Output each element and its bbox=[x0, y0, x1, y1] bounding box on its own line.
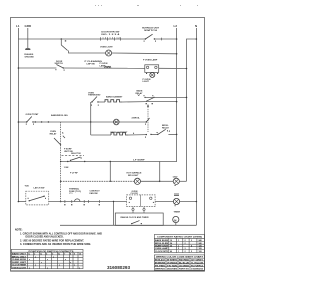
svg-text:GY GREY: GY GREY bbox=[191, 260, 204, 262]
svg-text:FAN SW: FAN SW bbox=[90, 192, 98, 195]
svg-text:x: x bbox=[70, 262, 72, 264]
svg-text:x: x bbox=[29, 254, 31, 256]
svg-text:RELAY: RELAY bbox=[136, 92, 143, 95]
lamp clock B bbox=[174, 194, 179, 196]
svg-text:240: 240 bbox=[199, 239, 202, 242]
svg-text:CLEAN MODE: CLEAN MODE bbox=[12, 258, 27, 261]
pin labels 1 2 bake relay bbox=[146, 103, 147, 104]
svg-text:PK PINK: PK PINK bbox=[155, 265, 166, 267]
svg-text:x: x bbox=[29, 267, 31, 269]
svg-text:2: 2 bbox=[34, 254, 35, 256]
oven light switch branch bbox=[61, 38, 63, 40]
svg-text:2: 2 bbox=[112, 38, 113, 40]
svg-text:9: 9 bbox=[74, 254, 75, 256]
svg-text:120: 120 bbox=[199, 251, 202, 253]
svg-text:P LF RF: P LF RF bbox=[70, 173, 79, 175]
svg-text:LF SURF: LF SURF bbox=[133, 159, 145, 161]
svg-text:L1: L1 bbox=[16, 24, 20, 28]
left circuit analysis table bbox=[11, 249, 83, 268]
wire GRD stub bbox=[27, 28, 29, 49]
svg-text:WIRING: WIRING bbox=[155, 269, 166, 271]
svg-text:316080293: 316080293 bbox=[191, 269, 203, 271]
lamp pilot circle on tstat line bbox=[114, 119, 120, 125]
terminal ticks on clock line bbox=[65, 200, 99, 203]
wire lamp A to N branch bbox=[179, 180, 186, 182]
svg-text:OVEN LIGHT: OVEN LIGHT bbox=[100, 47, 113, 49]
border frame bbox=[11, 18, 205, 272]
svg-text:SURF UNIT: SURF UNIT bbox=[12, 262, 27, 264]
svg-text:GROUND: GROUND bbox=[25, 56, 35, 58]
svg-text:BAKE ELEM: BAKE ELEM bbox=[155, 239, 168, 242]
svg-text:GRD: GRD bbox=[25, 24, 33, 28]
svg-text:OVEN TSTAT: OVEN TSTAT bbox=[26, 113, 40, 116]
svg-text:LMP SW: LMP SW bbox=[87, 63, 95, 65]
wire bake relay output to N branch bbox=[145, 96, 186, 98]
wire clock box to lamp B bbox=[155, 201, 174, 203]
svg-text:x: x bbox=[41, 254, 43, 256]
ground bbox=[25, 47, 30, 50]
svg-text:RELAY: RELAY bbox=[162, 126, 169, 129]
svg-text:120: 120 bbox=[199, 245, 202, 247]
svg-text:RELAY: RELAY bbox=[50, 133, 57, 136]
svg-text:PART NO: PART NO bbox=[179, 268, 190, 271]
svg-text:5: 5 bbox=[191, 251, 192, 253]
svg-text:2: 2 bbox=[105, 38, 106, 40]
svg-text:IND LIGHT: IND LIGHT bbox=[128, 175, 139, 177]
svg-text:RD RED: RD RED bbox=[179, 260, 190, 262]
wire clock lamp to N rail bbox=[179, 201, 196, 203]
svg-text:5: 5 bbox=[52, 254, 53, 256]
svg-text:2: 2 bbox=[178, 248, 179, 250]
svg-text:x: x bbox=[53, 256, 55, 258]
wire top line L1 to L2 bbox=[18, 38, 145, 40]
svg-text:DIAGRAM: DIAGRAM bbox=[167, 268, 177, 271]
svg-text:x: x bbox=[47, 259, 49, 261]
lamp B1 oven light bbox=[106, 50, 112, 56]
svg-text:x: x bbox=[74, 265, 76, 267]
svg-text:60: 60 bbox=[170, 251, 172, 253]
svg-text:P OVEN LAMP: P OVEN LAMP bbox=[143, 59, 158, 62]
svg-text:3: 3 bbox=[191, 240, 192, 242]
svg-text:A: A bbox=[62, 131, 64, 134]
svg-text:1: 1 bbox=[103, 38, 104, 40]
svg-text:316080293: 316080293 bbox=[107, 265, 130, 270]
svg-text:x: x bbox=[35, 256, 37, 258]
svg-text:BAKE ONLY: BAKE ONLY bbox=[12, 253, 27, 256]
svg-text:1: 1 bbox=[178, 251, 179, 253]
wire N rail bbox=[195, 28, 197, 225]
wire clock line y201.5 bbox=[49, 201, 127, 203]
svg-text:BR BROWN: BR BROWN bbox=[155, 263, 166, 265]
svg-text:4 BROIL: 4 BROIL bbox=[132, 116, 141, 119]
svg-text:NOTE:: NOTE: bbox=[15, 229, 23, 232]
svg-text:1 BK: 1 BK bbox=[64, 167, 69, 169]
svg-text:WIRING COLOR CODE IDENT CHART: WIRING COLOR CODE IDENT CHART bbox=[156, 256, 204, 259]
svg-text:x: x bbox=[59, 254, 61, 256]
svg-text:OVEN LIGHT: OVEN LIGHT bbox=[12, 267, 27, 269]
range clock box bbox=[115, 213, 163, 225]
svg-text:P 1: P 1 bbox=[70, 193, 74, 195]
wire lamp line to jog junction bbox=[140, 180, 160, 182]
svg-text:1: 1 bbox=[178, 245, 179, 247]
svg-text:GN GREEN: GN GREEN bbox=[179, 265, 190, 267]
svg-text:19: 19 bbox=[170, 240, 172, 242]
svg-text:NO. 1 2 3 4: NO. 1 2 3 4 bbox=[101, 33, 120, 36]
wire drop to bottom bbox=[113, 202, 115, 226]
node junction top N bbox=[196, 38, 198, 40]
latch dashed box bbox=[26, 191, 49, 205]
svg-text:TOD: TOD bbox=[25, 186, 30, 188]
wire bottom line bbox=[60, 224, 196, 226]
svg-text:35: 35 bbox=[170, 245, 172, 247]
svg-text:x: x bbox=[79, 267, 81, 269]
svg-text:x: x bbox=[59, 265, 61, 267]
svg-text:M: M bbox=[174, 218, 176, 222]
svg-text:BAKE/BROIL SEL: BAKE/BROIL SEL bbox=[51, 114, 69, 117]
svg-text:CLOCK/TIMER: CLOCK/TIMER bbox=[12, 265, 27, 267]
svg-text:4: 4 bbox=[46, 253, 47, 256]
svg-text:BROIL ONLY: BROIL ONLY bbox=[12, 256, 27, 258]
page specks above frame bbox=[95, 5, 198, 6]
wire L1 rail bbox=[17, 28, 19, 202]
svg-text:N: N bbox=[195, 24, 197, 28]
terminal block ticks bbox=[101, 37, 121, 40]
wire thermostat line to broil relay bbox=[33, 121, 146, 123]
svg-text:2: 2 bbox=[185, 240, 186, 242]
svg-text:SWITCH: SWITCH bbox=[55, 63, 64, 65]
wire L1 to latch box bbox=[18, 201, 25, 203]
fuse hump bbox=[75, 199, 81, 202]
svg-text:x: x bbox=[35, 265, 37, 267]
svg-text:1: 1 bbox=[110, 38, 111, 40]
svg-text:OVEN LAMP: OVEN LAMP bbox=[155, 247, 169, 250]
svg-text:x: x bbox=[41, 262, 43, 264]
wire drop x110.3 bbox=[109, 162, 111, 182]
svg-text:1: 1 bbox=[117, 38, 118, 40]
svg-text:120: 120 bbox=[199, 248, 202, 250]
svg-text:x: x bbox=[47, 267, 49, 269]
node selector taps bbox=[35, 121, 36, 122]
right lower title block bbox=[154, 255, 204, 270]
wire door line bbox=[18, 67, 56, 69]
wire timer motor stem bbox=[175, 222, 177, 225]
svg-text:1: 1 bbox=[178, 240, 179, 242]
svg-text:240: 240 bbox=[199, 242, 202, 245]
wire lamp line y181 bbox=[61, 180, 135, 182]
svg-text:BL BLUE: BL BLUE bbox=[179, 263, 190, 265]
svg-text:PU PURPLE: PU PURPLE bbox=[191, 265, 204, 267]
svg-text:2: 2 bbox=[185, 251, 186, 253]
svg-text:COMPONENT RATING CHART (OHMS): COMPONENT RATING CHART (OHMS) bbox=[157, 236, 202, 239]
frame bottom heavier line bbox=[11, 270, 205, 272]
svg-text:x: x bbox=[65, 259, 67, 261]
svg-text:BK BLACK: BK BLACK bbox=[155, 259, 166, 262]
right upper table bbox=[154, 235, 204, 253]
pin number specks bbox=[26, 41, 176, 207]
pin tick right of switch bbox=[161, 38, 163, 41]
svg-text:RANGE CLOCK AND TIMER: RANGE CLOCK AND TIMER bbox=[121, 216, 149, 219]
lamp bulb bbox=[150, 73, 155, 78]
wire bake line to L2 bbox=[145, 101, 176, 103]
svg-text:2: 2 bbox=[185, 243, 186, 245]
node junction top L2 bbox=[176, 38, 178, 40]
svg-text:3. CONNECTORS ARE AS VIEWED FR: 3. CONNECTORS ARE AS VIEWED FROM THE WIR… bbox=[20, 243, 91, 246]
svg-text:L2: L2 bbox=[174, 24, 178, 28]
svg-text:8: 8 bbox=[70, 254, 71, 256]
svg-text:SELECTOR: SELECTOR bbox=[71, 153, 81, 155]
svg-text:10: 10 bbox=[79, 254, 81, 256]
svg-text:POSITION OF SWITCH CONTACTS: POSITION OF SWITCH CONTACTS bbox=[29, 250, 75, 253]
svg-text:OR ORANGE: OR ORANGE bbox=[167, 262, 178, 265]
broil relay contacts bbox=[146, 121, 147, 122]
svg-text:LIGHT: LIGHT bbox=[143, 81, 150, 83]
selector vertical bbox=[60, 122, 62, 202]
wire surface line to L2 jog bbox=[61, 161, 160, 163]
svg-text:LATCH SW: LATCH SW bbox=[34, 187, 45, 190]
svg-text:BAKE ELEMENT: BAKE ELEMENT bbox=[106, 96, 123, 99]
svg-text:TIMER: TIMER bbox=[174, 212, 181, 214]
svg-text:THERMOSTAT: THERMOSTAT bbox=[88, 94, 101, 97]
svg-text:YL YELLOW: YL YELLOW bbox=[191, 263, 203, 265]
junction dots on selector drop bbox=[60, 181, 61, 182]
wire N branch rail bbox=[187, 39, 197, 181]
wire bake feed vertical bbox=[90, 102, 92, 135]
svg-text:3: 3 bbox=[185, 248, 186, 250]
svg-text:SURF UNIT: SURF UNIT bbox=[155, 245, 169, 247]
wire L2 rail bbox=[160, 28, 177, 181]
svg-text:2: 2 bbox=[119, 38, 120, 40]
selector blade 2 bbox=[70, 160, 71, 161]
svg-text:7: 7 bbox=[64, 254, 65, 256]
svg-text:CLOCK MTR: CLOCK MTR bbox=[155, 251, 169, 253]
svg-text:DOOR CLOSED AND UNLOCKED.: DOOR CLOSED AND UNLOCKED. bbox=[26, 236, 64, 239]
svg-text:TN TAN: TN TAN bbox=[167, 264, 178, 267]
svg-text:SWITCH: SWITCH bbox=[144, 30, 158, 32]
svg-text:W WHITE: W WHITE bbox=[167, 260, 178, 262]
dashed contact row bbox=[62, 155, 85, 157]
wire broil output to L2 bbox=[168, 133, 176, 135]
wire thermostat line bbox=[18, 121, 26, 123]
svg-text:x: x bbox=[29, 259, 31, 261]
svg-text:4: 4 bbox=[133, 132, 135, 135]
